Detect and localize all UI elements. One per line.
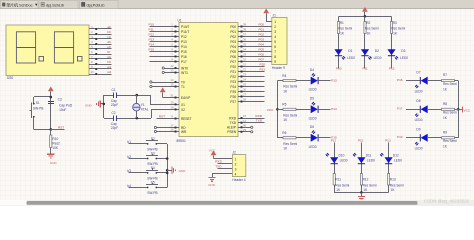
svg-text:P24: P24 bbox=[230, 85, 236, 89]
wire P16 to U1 bbox=[150, 56, 175, 58]
mcu left pin numbers bbox=[171, 23, 174, 132]
wire T0 bbox=[150, 81, 175, 83]
svg-text:30: 30 bbox=[243, 124, 246, 128]
svg-text:Header 4: Header 4 bbox=[232, 178, 245, 182]
net label P12 bbox=[389, 67, 395, 71]
svg-text:R1: R1 bbox=[340, 21, 344, 25]
net label P14 bbox=[331, 107, 337, 111]
svg-text:P10: P10 bbox=[397, 135, 403, 139]
capacitor C2 bbox=[111, 111, 118, 130]
mcu U1 body bbox=[179, 23, 238, 137]
svg-text:P04: P04 bbox=[230, 45, 236, 49]
wire row D4 bbox=[277, 80, 310, 82]
svg-text:LED0: LED0 bbox=[367, 159, 375, 163]
svg-text:7: 7 bbox=[274, 50, 276, 54]
wire S3 to rail bbox=[158, 158, 167, 160]
power port VCC right bbox=[463, 106, 471, 112]
svg-text:RST: RST bbox=[58, 125, 64, 129]
LED D4 bbox=[309, 68, 319, 92]
wire LED branch 3 bbox=[391, 16, 393, 68]
junction bbox=[166, 157, 169, 160]
svg-text:P25: P25 bbox=[230, 90, 236, 94]
wire display pin 2 bbox=[97, 34, 111, 36]
svg-text:10: 10 bbox=[243, 114, 246, 118]
svg-text:w2: w2 bbox=[107, 70, 111, 74]
net label P12 bbox=[358, 138, 364, 142]
label Header 4 bbox=[232, 178, 245, 182]
svg-text:S2: S2 bbox=[151, 137, 155, 141]
wire VCC stub right bbox=[458, 109, 462, 111]
net label P12 bbox=[149, 33, 155, 37]
svg-text:P03: P03 bbox=[259, 38, 265, 42]
designator DS0 bbox=[7, 76, 13, 80]
svg-text:J2: J2 bbox=[232, 150, 236, 154]
wire P07 to J1 bbox=[243, 61, 272, 63]
LED D5 bbox=[309, 97, 319, 121]
svg-text:SW-PB: SW-PB bbox=[147, 191, 157, 195]
power VCC at J2 bbox=[209, 148, 217, 158]
svg-text:P05: P05 bbox=[230, 50, 236, 54]
net label w2 bbox=[107, 70, 111, 74]
mcu right pin names bbox=[227, 25, 237, 134]
header J2 body bbox=[232, 155, 245, 177]
LED D3 bbox=[387, 49, 408, 60]
svg-text:EA/VP: EA/VP bbox=[181, 96, 190, 100]
ground J2 bbox=[208, 178, 216, 188]
wire P13 to U1 bbox=[150, 41, 175, 43]
svg-text:P14: P14 bbox=[331, 107, 337, 111]
ground buttons bbox=[167, 167, 186, 174]
svg-text:D10: D10 bbox=[339, 154, 345, 158]
net label k2 bbox=[127, 155, 131, 159]
svg-text:P21: P21 bbox=[230, 70, 236, 74]
power VCC top rail bbox=[362, 7, 368, 16]
wire LED branch D10 bbox=[334, 143, 336, 193]
svg-text:X2: X2 bbox=[181, 108, 185, 112]
wire LED D5 out bbox=[318, 109, 330, 111]
svg-text:P10: P10 bbox=[336, 67, 342, 71]
svg-text:3: 3 bbox=[274, 30, 276, 34]
wire VCC rail mid bbox=[277, 81, 279, 138]
wire J2 pin1 bbox=[214, 158, 233, 160]
wire to LED D9 bbox=[406, 137, 421, 139]
active tab 单片机.SchDoc bbox=[1, 1, 39, 9]
net label P10 bbox=[149, 23, 155, 27]
power VCC at J1 bbox=[263, 9, 269, 22]
wire TXD bbox=[243, 122, 265, 124]
svg-text:D7: D7 bbox=[416, 70, 420, 74]
capacitor C3 bbox=[48, 97, 73, 112]
svg-text:D12: D12 bbox=[393, 154, 399, 158]
resistor R11 bbox=[333, 174, 349, 193]
wire RESET bbox=[157, 118, 175, 120]
svg-text:R13: R13 bbox=[390, 178, 396, 182]
net label f0 bbox=[107, 50, 110, 54]
wire P14 to U1 bbox=[150, 46, 175, 48]
svg-text:D6: D6 bbox=[310, 125, 314, 129]
header J1 body bbox=[272, 18, 287, 65]
svg-text:4: 4 bbox=[235, 172, 237, 176]
wire C1 left bbox=[104, 95, 113, 97]
svg-text:S1: S1 bbox=[36, 101, 40, 105]
net label P10 bbox=[336, 67, 342, 71]
tab dpj.PcbLib bbox=[80, 1, 119, 9]
net label P00 bbox=[259, 23, 265, 27]
svg-text:Res Semi: Res Semi bbox=[335, 183, 349, 187]
svg-text:P00: P00 bbox=[230, 25, 236, 29]
net label P13 bbox=[331, 78, 337, 82]
wire P04 to J1 bbox=[243, 46, 272, 48]
resistor R7 bbox=[442, 73, 458, 91]
junction bbox=[364, 15, 367, 18]
net label RST bbox=[58, 125, 64, 129]
svg-text:CSDN @qq_40232525: CSDN @qq_40232525 bbox=[424, 199, 470, 204]
net label b0 bbox=[107, 30, 111, 34]
net label k1 bbox=[127, 140, 131, 144]
svg-text:P20: P20 bbox=[230, 65, 236, 69]
mcu part name 89S51 bbox=[177, 139, 186, 143]
net label P16 bbox=[397, 78, 403, 82]
resistor R8 bbox=[442, 102, 458, 120]
svg-text:P15: P15 bbox=[181, 50, 187, 54]
wire P10 to U1 bbox=[150, 26, 175, 28]
svg-text:89S51: 89S51 bbox=[177, 139, 186, 143]
svg-text:9: 9 bbox=[274, 60, 276, 64]
svg-text:GND: GND bbox=[85, 103, 93, 107]
designator J1 bbox=[273, 13, 277, 17]
svg-text:P21: P21 bbox=[260, 68, 266, 72]
wire J2 pin4 bbox=[212, 174, 232, 178]
wire INT0 bbox=[162, 67, 174, 69]
wire LED D7 to R7 bbox=[428, 80, 442, 82]
svg-text:P16: P16 bbox=[397, 78, 403, 82]
LED D11 bbox=[353, 153, 375, 164]
svg-text:10K: 10K bbox=[52, 146, 59, 150]
svg-text:8: 8 bbox=[274, 55, 276, 59]
svg-text:f0: f0 bbox=[107, 50, 110, 54]
resistor R5 bbox=[282, 103, 297, 122]
svg-text:P12: P12 bbox=[358, 138, 364, 142]
svg-text:P04: P04 bbox=[259, 43, 265, 47]
svg-text:P03: P03 bbox=[230, 40, 236, 44]
net label g0 bbox=[107, 55, 111, 59]
wire k3 bbox=[128, 172, 146, 174]
svg-text:P20: P20 bbox=[260, 63, 266, 67]
svg-text:单片机.SchDoc: 单片机.SchDoc bbox=[6, 1, 32, 7]
svg-text:P00: P00 bbox=[259, 23, 265, 27]
svg-text:LED0: LED0 bbox=[400, 56, 408, 60]
wire row D5 bbox=[277, 109, 310, 111]
wire display pin 10 bbox=[97, 74, 111, 76]
svg-text:P12: P12 bbox=[149, 33, 155, 37]
display pins bbox=[89, 28, 97, 75]
svg-text:T0: T0 bbox=[181, 80, 185, 84]
wire display pin 1 bbox=[97, 28, 111, 30]
switch S4 bbox=[146, 166, 158, 181]
svg-text:D11: D11 bbox=[366, 154, 372, 158]
svg-text:S3: S3 bbox=[151, 151, 155, 155]
net label P11 bbox=[149, 28, 155, 32]
net label P15 bbox=[331, 136, 337, 140]
tab dpj.SchLib bbox=[39, 1, 78, 9]
svg-text:10uF: 10uF bbox=[59, 108, 66, 112]
svg-text:R4: R4 bbox=[282, 74, 286, 78]
svg-text:LED0: LED0 bbox=[415, 147, 423, 151]
resistor R10 bbox=[50, 129, 60, 153]
net label P03 bbox=[259, 38, 265, 42]
wire C1 to X1 bbox=[117, 95, 150, 97]
wire VCC rail right bbox=[458, 81, 460, 138]
svg-text:Cap Pol2: Cap Pol2 bbox=[59, 104, 72, 108]
svg-text:P13: P13 bbox=[385, 138, 391, 142]
resistor R6 bbox=[282, 131, 297, 150]
net label GND crystal bbox=[85, 103, 93, 107]
svg-text:P06: P06 bbox=[259, 53, 265, 57]
wire display pin 4 bbox=[97, 44, 111, 46]
svg-text:d0: d0 bbox=[107, 40, 111, 44]
svg-text:P05: P05 bbox=[259, 48, 265, 52]
svg-text:D1: D1 bbox=[348, 49, 352, 53]
svg-text:R8: R8 bbox=[443, 102, 447, 106]
svg-text:RXD: RXD bbox=[256, 114, 263, 118]
wire buttons rail bbox=[167, 144, 169, 188]
resistor R13 bbox=[388, 174, 404, 193]
resistor R9 bbox=[442, 130, 458, 148]
wire LED branch D12 bbox=[388, 143, 390, 193]
svg-text:T1: T1 bbox=[181, 85, 185, 89]
svg-text:P11: P11 bbox=[331, 138, 337, 142]
net label RXD bbox=[256, 114, 263, 118]
net label P20 bbox=[260, 63, 266, 67]
wire RD bbox=[154, 126, 174, 128]
junction bbox=[166, 169, 169, 172]
svg-text:R9: R9 bbox=[443, 130, 447, 134]
svg-text:PSEN: PSEN bbox=[227, 130, 236, 134]
wire VCC to J1 pin1 bbox=[266, 21, 272, 23]
svg-text:S5: S5 bbox=[151, 180, 155, 184]
svg-text:P01: P01 bbox=[259, 28, 265, 32]
wire display pin 8 bbox=[97, 64, 111, 66]
svg-text:P01: P01 bbox=[230, 30, 236, 34]
net label TXD bbox=[256, 119, 263, 123]
svg-text:R3: R3 bbox=[393, 21, 397, 25]
svg-text:R11: R11 bbox=[335, 178, 341, 182]
svg-text:TXD: TXD bbox=[230, 121, 237, 125]
svg-text:P13: P13 bbox=[331, 78, 337, 82]
svg-text:Res Semi: Res Semi bbox=[443, 82, 457, 86]
svg-text:Res Semi: Res Semi bbox=[283, 142, 297, 146]
svg-text:P15: P15 bbox=[149, 48, 155, 52]
svg-text:VCC: VCC bbox=[464, 109, 471, 113]
svg-text:6: 6 bbox=[274, 45, 276, 49]
svg-text:14: 14 bbox=[171, 78, 174, 82]
svg-text:Res Semi: Res Semi bbox=[283, 85, 297, 89]
LED D9 bbox=[415, 128, 428, 151]
switch S2 bbox=[146, 137, 158, 152]
svg-text:3: 3 bbox=[235, 167, 237, 171]
wire P20 bbox=[243, 66, 265, 68]
crystal Y1 bbox=[133, 95, 149, 118]
wire P21 bbox=[243, 71, 265, 73]
svg-text:LED0: LED0 bbox=[309, 116, 317, 120]
svg-text:D5: D5 bbox=[310, 97, 314, 101]
wire PSEN bbox=[243, 131, 253, 133]
svg-text:P07: P07 bbox=[259, 58, 265, 62]
wire LED D4 out bbox=[318, 80, 330, 82]
designator U1 bbox=[178, 18, 182, 22]
svg-text:TXD: TXD bbox=[215, 165, 222, 169]
wire S2 to rail bbox=[158, 143, 167, 145]
switch S5 bbox=[146, 180, 158, 195]
net label RXD at J2 bbox=[215, 160, 222, 164]
net label P06 bbox=[259, 53, 265, 57]
wire R9 to rail bbox=[455, 137, 459, 139]
svg-text:1: 1 bbox=[235, 157, 237, 161]
junction bbox=[50, 96, 53, 99]
svg-text:P02: P02 bbox=[259, 33, 265, 37]
resistor R4 bbox=[282, 74, 297, 93]
svg-text:5: 5 bbox=[274, 40, 276, 44]
svg-text:P16: P16 bbox=[181, 55, 187, 59]
net label P13 bbox=[149, 38, 155, 42]
net label h0 bbox=[107, 60, 111, 64]
bottom scrollbar track bbox=[0, 200, 474, 206]
svg-text:dpj.SchLib: dpj.SchLib bbox=[46, 2, 65, 7]
7-segment display DS0 body bbox=[6, 25, 89, 76]
ground bottom LEDs bbox=[358, 192, 365, 200]
wire P17 to U1 bbox=[150, 61, 175, 63]
svg-text:P10/T: P10/T bbox=[181, 25, 190, 29]
svg-text:P23: P23 bbox=[230, 80, 236, 84]
svg-text:D9: D9 bbox=[416, 128, 420, 132]
svg-text:4: 4 bbox=[274, 35, 276, 39]
svg-text:P14: P14 bbox=[181, 45, 187, 49]
svg-text:P11/T: P11/T bbox=[181, 30, 189, 34]
svg-text:INT0: INT0 bbox=[181, 66, 188, 70]
svg-text:e0: e0 bbox=[107, 45, 111, 49]
svg-text:P12: P12 bbox=[389, 67, 395, 71]
wire T1 bbox=[150, 85, 175, 87]
wire P01 to J1 bbox=[243, 31, 272, 33]
svg-text:22pF: 22pF bbox=[111, 126, 118, 130]
svg-text:D4: D4 bbox=[310, 68, 314, 72]
svg-text:VCC: VCC bbox=[267, 108, 274, 112]
resistor R1 bbox=[337, 21, 352, 35]
power VCC reset bbox=[48, 87, 54, 98]
svg-text:P17: P17 bbox=[397, 107, 403, 111]
wire P25 bbox=[243, 91, 265, 93]
wire P23 bbox=[243, 81, 265, 83]
wire GND rail bottom bbox=[334, 192, 388, 194]
net label e0 bbox=[107, 45, 111, 49]
svg-text:R7: R7 bbox=[443, 73, 447, 77]
svg-text:P06: P06 bbox=[230, 55, 236, 59]
wire EA/VP bbox=[163, 97, 175, 99]
svg-text:D2: D2 bbox=[375, 49, 379, 53]
LED D8 bbox=[415, 99, 428, 122]
wire row D6 bbox=[277, 137, 310, 139]
net label k4 bbox=[127, 184, 131, 188]
wire R8 to rail bbox=[455, 109, 459, 111]
junction bbox=[276, 108, 279, 111]
svg-text:R5: R5 bbox=[282, 103, 286, 107]
wire J2 pin2 bbox=[218, 163, 233, 165]
svg-text:R12: R12 bbox=[363, 178, 369, 182]
svg-text:P07: P07 bbox=[230, 60, 236, 64]
wire C2 left bbox=[104, 118, 113, 120]
net label P15 bbox=[149, 48, 155, 52]
svg-text:Res Semi: Res Semi bbox=[365, 26, 379, 30]
wire VCC rail top bbox=[339, 16, 392, 18]
svg-text:RESET: RESET bbox=[181, 117, 192, 121]
svg-text:Res Semi: Res Semi bbox=[338, 26, 352, 30]
wire S4 to rail bbox=[158, 172, 167, 174]
svg-text:LED0: LED0 bbox=[309, 88, 317, 92]
wire S5 to rail bbox=[158, 187, 167, 189]
mcu right pin numbers bbox=[243, 23, 246, 132]
wire display pin 7 bbox=[97, 58, 111, 60]
wire P03 to J1 bbox=[243, 41, 272, 43]
wire J2 pin3 bbox=[218, 168, 233, 170]
svg-text:10: 10 bbox=[91, 70, 94, 74]
wire R7 to rail bbox=[455, 80, 459, 82]
wire VCC tee bbox=[34, 97, 51, 130]
svg-text:LED0: LED0 bbox=[415, 118, 423, 122]
svg-text:RST: RST bbox=[159, 114, 165, 118]
svg-text:P13: P13 bbox=[149, 38, 155, 42]
svg-text:Res Semi: Res Semi bbox=[443, 111, 457, 115]
svg-text:LED0: LED0 bbox=[347, 56, 355, 60]
LED D12 bbox=[380, 153, 402, 164]
wire P22 bbox=[243, 76, 265, 78]
net label w1 bbox=[107, 65, 111, 69]
mcu left pin names bbox=[181, 25, 192, 134]
display pin numbers bbox=[91, 25, 94, 74]
svg-text:P22: P22 bbox=[230, 75, 236, 79]
svg-text:LED0: LED0 bbox=[415, 89, 423, 93]
net label RST at U1 bbox=[159, 114, 165, 118]
switch S1 bbox=[30, 97, 44, 129]
mcu right pin stubs bbox=[238, 26, 243, 133]
svg-text:1: 1 bbox=[274, 20, 276, 24]
tab bar background bbox=[0, 0, 474, 9]
net label P11 bbox=[363, 67, 369, 71]
svg-text:P17: P17 bbox=[181, 60, 187, 64]
wire LED branch D11 bbox=[361, 143, 363, 193]
svg-text:C2: C2 bbox=[112, 111, 116, 115]
bottom scrollbar thumb bbox=[27, 201, 418, 205]
svg-text:P12: P12 bbox=[181, 35, 187, 39]
net label c0 bbox=[107, 35, 111, 39]
wire RXD bbox=[243, 118, 265, 120]
svg-text:ALE/P: ALE/P bbox=[227, 126, 236, 130]
svg-text:P02: P02 bbox=[230, 35, 236, 39]
svg-text:LED0: LED0 bbox=[309, 145, 317, 149]
LED D10 bbox=[326, 153, 348, 164]
LED D7 bbox=[415, 70, 428, 93]
wire P15 to U1 bbox=[150, 51, 175, 53]
svg-text:RXD: RXD bbox=[215, 160, 222, 164]
wire S1 bottom bbox=[34, 129, 51, 131]
LED D6 bbox=[309, 125, 319, 149]
svg-text:TXD: TXD bbox=[256, 119, 263, 123]
svg-text:R10: R10 bbox=[52, 137, 58, 141]
wire LED branch 2 bbox=[364, 16, 366, 68]
net label P10 bbox=[397, 135, 403, 139]
svg-text:P11: P11 bbox=[149, 28, 155, 32]
svg-text:DS0: DS0 bbox=[7, 76, 13, 80]
svg-text:a0: a0 bbox=[107, 25, 111, 29]
